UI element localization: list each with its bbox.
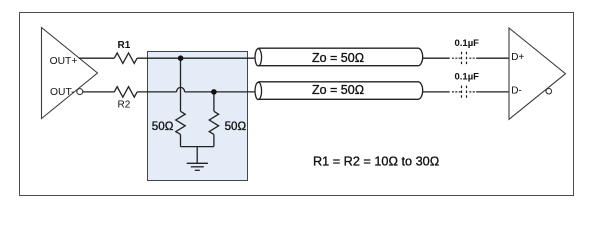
svg-text:D-: D- xyxy=(511,86,522,97)
termination box (blue) xyxy=(148,52,248,181)
wire R2 to hop (net D-) xyxy=(137,91,177,93)
wire OUT- bubble to R2 xyxy=(82,91,114,93)
op-amp U1 driver triangle xyxy=(42,28,98,119)
inversion bubble on OUT- xyxy=(77,89,83,95)
resistor R2 xyxy=(114,87,137,98)
wire bottom dot down to right 50 ohm resistor xyxy=(213,92,215,111)
wire hop to bottom coax xyxy=(185,91,256,93)
svg-text:R1: R1 xyxy=(118,40,131,51)
wire bottom coax to capacitor xyxy=(423,91,450,93)
wire capacitor to D- xyxy=(476,91,509,93)
svg-text:Zo = 50Ω: Zo = 50Ω xyxy=(312,51,364,65)
node junction dot bottom xyxy=(211,89,217,95)
wire hop over left termination leg xyxy=(177,87,185,92)
resistor 50 ohm right (vertical) xyxy=(209,111,218,134)
wire R1 to top coax (net D+) xyxy=(137,57,255,59)
wire top dot down to left 50 ohm resistor xyxy=(180,58,182,111)
svg-text:D+: D+ xyxy=(511,52,524,63)
node junction dot top xyxy=(178,55,184,61)
ground xyxy=(187,163,208,170)
svg-text:OUT-: OUT- xyxy=(50,87,75,98)
wire joining resistor bottoms xyxy=(181,146,214,148)
svg-text:50Ω: 50Ω xyxy=(225,120,247,133)
resistor 50 ohm left (vertical) xyxy=(176,111,185,134)
wire OUT+ to R1 xyxy=(79,57,114,59)
svg-text:0.1µF: 0.1µF xyxy=(455,38,480,49)
svg-text:R2: R2 xyxy=(118,100,131,111)
capacitor C2 0.1uF (dashed, optional) xyxy=(452,86,477,98)
border frame xyxy=(20,13,574,196)
op-amp U2 receiver triangle xyxy=(509,28,566,119)
wire top coax to capacitor xyxy=(423,57,450,59)
svg-text:0.1µF: 0.1µF xyxy=(455,72,480,83)
svg-text:50Ω: 50Ω xyxy=(152,120,174,133)
svg-text:Zo = 50Ω: Zo = 50Ω xyxy=(312,83,364,97)
coax transmission line bottom xyxy=(255,82,423,100)
wire capacitor to D+ xyxy=(476,57,509,59)
coax transmission line top xyxy=(255,48,423,66)
wire to ground xyxy=(196,147,198,164)
resistor R1 xyxy=(114,53,137,64)
inversion bubble on receiver xyxy=(546,88,552,94)
svg-text:OUT+: OUT+ xyxy=(50,56,78,67)
capacitor C1 0.1uF (dashed, optional) xyxy=(452,52,477,64)
svg-text:R1 = R2 = 10Ω to 30Ω: R1 = R2 = 10Ω to 30Ω xyxy=(313,154,439,168)
